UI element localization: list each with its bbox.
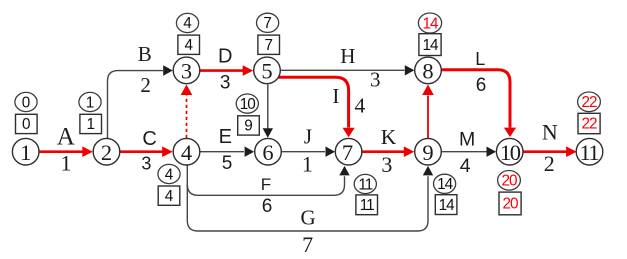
svg-text:7: 7 (263, 15, 272, 32)
marker node9 late box 14 (435, 195, 457, 215)
node 9 (415, 138, 442, 165)
svg-text:6: 6 (262, 196, 273, 217)
wire activity F (4-7) elbow line (187, 166, 349, 195)
svg-text:2: 2 (544, 151, 555, 176)
svg-text:14: 14 (422, 37, 439, 54)
wire activity D (3-5) red line (200, 65, 253, 76)
svg-text:J: J (304, 124, 312, 148)
svg-text:N: N (542, 120, 558, 145)
svg-text:3: 3 (220, 73, 231, 94)
label activity F (261, 175, 272, 217)
label activity L (475, 49, 486, 96)
wire activity G (4-9) elbow line (187, 165, 433, 231)
marker node2 late box 1 (80, 114, 102, 133)
svg-text:7: 7 (342, 140, 353, 165)
label activity I (332, 84, 365, 117)
svg-text:I: I (332, 84, 339, 108)
marker node5 early circle 7 (257, 13, 279, 32)
svg-text:14: 14 (437, 176, 454, 193)
marker node3 late box 4 (178, 35, 200, 54)
svg-text:5: 5 (261, 58, 272, 83)
svg-text:G: G (301, 205, 316, 229)
svg-text:2: 2 (101, 140, 112, 165)
label activity B (138, 42, 152, 97)
svg-text:22: 22 (581, 94, 597, 111)
svg-text:0: 0 (22, 94, 31, 111)
marker node2 early circle 1 (79, 92, 101, 111)
marker node4 early circle 4 (158, 164, 180, 183)
svg-text:K: K (381, 125, 397, 149)
wire activity I (5-7) thick red elbow (279, 77, 355, 137)
svg-text:L: L (475, 49, 485, 69)
wire activity M (9-10) line (442, 147, 496, 157)
marker node10 late box 20 red (499, 192, 521, 215)
svg-text:14: 14 (422, 15, 439, 32)
svg-text:1: 1 (61, 151, 72, 176)
svg-text:7: 7 (264, 37, 273, 54)
svg-text:14: 14 (439, 197, 456, 214)
svg-text:C: C (142, 128, 156, 150)
node 1 (12, 138, 39, 165)
node 4 (173, 138, 200, 165)
wire activity A (1-2) red line (38, 146, 93, 157)
label activity H (340, 44, 380, 91)
wire activity N (10-11) red line (524, 146, 577, 157)
svg-text:1: 1 (86, 116, 95, 133)
svg-text:4: 4 (165, 166, 174, 183)
marker node10 early circle 20 red (498, 171, 521, 191)
svg-text:3: 3 (370, 67, 381, 91)
label activity N (542, 120, 558, 177)
svg-text:5: 5 (222, 153, 233, 174)
svg-text:1: 1 (86, 94, 95, 111)
node 11 (576, 138, 603, 165)
svg-text:3: 3 (181, 58, 192, 83)
wire activity C (2-4) red line (120, 146, 173, 157)
svg-text:3: 3 (381, 152, 392, 177)
wire activity L (8-10) thick red elbow (442, 70, 516, 137)
marker node11 late box 22 red (578, 113, 600, 133)
marker node9 early circle 14 (434, 174, 456, 193)
wire activity K (7-9) red line (362, 146, 414, 157)
marker node4 late box 4 (158, 186, 180, 205)
label activity J (302, 124, 313, 176)
label activity A (57, 124, 75, 176)
svg-text:7: 7 (302, 232, 313, 257)
svg-text:10: 10 (240, 96, 256, 113)
svg-text:F: F (261, 175, 271, 194)
svg-text:22: 22 (581, 116, 597, 133)
marker node7 early circle 11 (354, 174, 376, 193)
svg-text:4: 4 (184, 37, 193, 54)
svg-text:B: B (138, 42, 152, 66)
svg-text:2: 2 (140, 73, 151, 97)
label activity M (459, 129, 475, 178)
svg-text:H: H (340, 44, 355, 68)
node 2 (93, 138, 120, 165)
marker node6 early circle 10 (236, 94, 258, 113)
svg-text:11: 11 (360, 197, 374, 214)
wire activity E (4-6) line (200, 147, 254, 157)
svg-text:4: 4 (183, 15, 192, 32)
label activity G (301, 205, 316, 257)
marker node3 early circle 4 (176, 13, 198, 32)
marker node5 late box 7 (258, 35, 280, 54)
label activity K (381, 125, 397, 177)
svg-text:9: 9 (422, 140, 433, 165)
node 3 (173, 57, 200, 84)
node 8 (415, 57, 442, 84)
svg-text:10: 10 (500, 140, 521, 165)
wire activity B (2-3) elbow line (108, 65, 173, 138)
svg-text:D: D (218, 45, 232, 67)
svg-text:A: A (57, 124, 75, 151)
label activity C (141, 128, 156, 174)
label activity D (218, 45, 232, 93)
marker node6 late box 9 (238, 116, 260, 135)
svg-text:4: 4 (355, 93, 366, 117)
node 5 (254, 57, 281, 84)
node 7 (335, 138, 362, 165)
marker node11 early circle 22 red (578, 92, 601, 112)
svg-text:9: 9 (244, 118, 253, 135)
svg-text:11: 11 (579, 140, 598, 165)
marker node1 early circle 0 (15, 92, 37, 111)
svg-text:20: 20 (502, 196, 518, 213)
svg-text:11: 11 (358, 176, 372, 193)
node 10 (496, 138, 523, 165)
svg-text:20: 20 (501, 173, 517, 190)
wire dummy (5-6) vertical line (263, 84, 273, 137)
wire dummy (4-3) red dashed arrow (181, 85, 193, 139)
svg-text:6: 6 (262, 140, 273, 165)
svg-text:4: 4 (181, 140, 192, 165)
wire activity H (5-8) line (281, 65, 414, 75)
svg-text:4: 4 (460, 155, 471, 177)
node 6 (255, 138, 282, 165)
svg-text:3: 3 (141, 154, 151, 174)
svg-text:M: M (459, 129, 475, 151)
svg-text:4: 4 (165, 188, 174, 205)
wire dummy (9-8) red arrow (422, 85, 434, 139)
marker node8 early circle 14 red (418, 13, 441, 33)
label activity E (219, 126, 233, 174)
wire activity J (6-7) line (281, 147, 335, 157)
svg-text:6: 6 (476, 75, 487, 96)
svg-text:1: 1 (302, 151, 313, 176)
svg-text:E: E (219, 126, 232, 148)
marker node8 late box 14 (419, 34, 441, 56)
marker node1 late box 0 (16, 114, 38, 133)
svg-text:8: 8 (422, 58, 433, 83)
svg-text:0: 0 (22, 116, 31, 133)
marker node7 late box 11 (356, 195, 378, 215)
svg-text:1: 1 (20, 140, 31, 165)
